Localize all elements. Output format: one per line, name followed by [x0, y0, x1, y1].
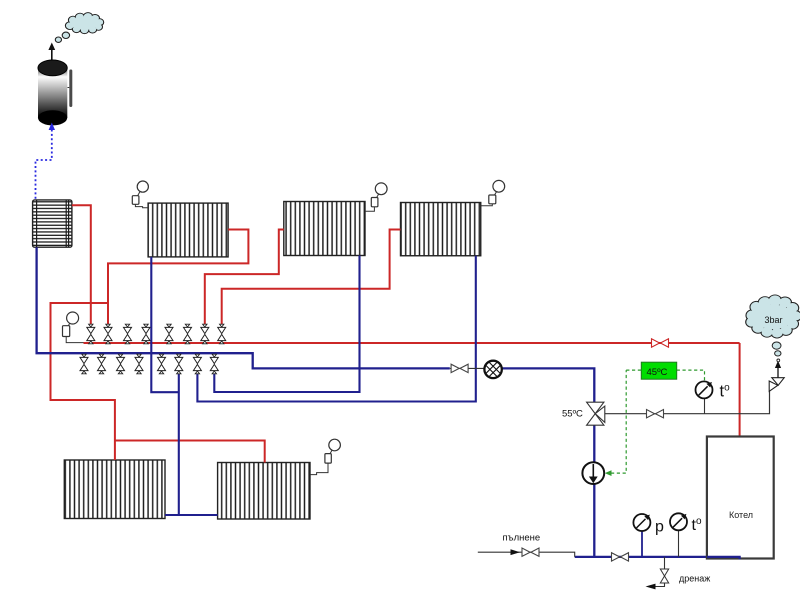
red branch to radiator R6 [115, 441, 265, 463]
smoke puff large [62, 32, 69, 38]
svg-text:пълнене: пълнене [503, 533, 541, 544]
red boiler riser [739, 343, 741, 437]
circulation pump [582, 462, 604, 484]
blue pipe mixing valve to pump [593, 425, 595, 463]
supply manifold valve 5 [165, 324, 173, 344]
svg-text:p: p [655, 519, 664, 536]
radiator R6 [218, 463, 310, 520]
radiator R4 [401, 203, 481, 256]
filling flow arrow [511, 549, 521, 555]
shut-off valve before heat exchanger [451, 364, 468, 372]
thermostatic head R4 [481, 180, 505, 205]
red riser valve V7 to radiator R3 [205, 230, 284, 325]
blue return to mixing valve [502, 368, 595, 402]
green control arrow to pump [605, 470, 612, 476]
blue return R2 drop [151, 257, 179, 392]
smoke cloud [65, 13, 103, 34]
return manifold valve 4 [135, 354, 143, 374]
svg-text:to: to [692, 516, 702, 534]
supply manifold valve 7 [201, 324, 209, 344]
red riser valve V8 to radiator R4 [222, 230, 401, 325]
blue bottom return line into boiler [575, 557, 740, 559]
return manifold valve 6 [175, 354, 183, 374]
svg-text:Котел: Котел [729, 510, 753, 520]
supply manifold valve 2 [104, 324, 112, 344]
supply manifold valve 1 [87, 324, 95, 344]
radiator R3 [284, 202, 365, 256]
boiler flue cylinder [38, 60, 67, 125]
radiator R5 [64, 460, 165, 519]
blow-off puff large [772, 342, 781, 349]
thermostatic head R3 [365, 183, 387, 211]
return manifold valve 3 [117, 354, 125, 374]
smoke puff small [55, 37, 61, 42]
return manifold valve 1 [80, 354, 88, 374]
green control line pump branch to box [626, 369, 641, 371]
green control line to pump [611, 370, 626, 473]
three-way mixing valve 55C [587, 402, 605, 425]
return manifold valve 5 [158, 354, 166, 374]
blue return R4 via valve [197, 256, 475, 402]
blow-off puff mid [775, 351, 781, 356]
blue pipe pump to bottom line [593, 484, 595, 557]
thermostatic head R2 [132, 181, 148, 208]
boiler thermometer [696, 381, 713, 398]
black pipe mixing valve to safety valve [605, 391, 770, 413]
svg-text:45ºC: 45ºC [647, 367, 668, 378]
svg-text:55ºC: 55ºC [562, 409, 583, 420]
lower thermometer [670, 513, 687, 530]
drain stub [664, 557, 666, 569]
drain valve [660, 569, 668, 583]
blue return manifold from R1 [37, 247, 450, 368]
pressure gauge [633, 514, 650, 531]
blue return R3 via valve [214, 256, 359, 393]
cylinder handle [68, 70, 73, 108]
radiator R1 (convector, horizontal fins) [33, 200, 72, 247]
svg-text:to: to [720, 383, 731, 401]
filling line [478, 552, 575, 557]
drain outlet arrow [646, 583, 665, 589]
svg-text:3bar: 3bar [765, 315, 783, 325]
valve on boiler bypass [647, 410, 664, 418]
return manifold valve 8 [210, 354, 218, 374]
supply manifold valve 3 [124, 324, 132, 344]
return manifold valve 7 [193, 354, 201, 374]
bottom line valve [612, 553, 629, 561]
thermostatic head R6 [310, 439, 340, 474]
thermometer stub upper [704, 399, 706, 414]
room thermostat at manifold [63, 312, 84, 343]
blue lower radiators link [165, 514, 218, 516]
blue return inside boiler [707, 557, 740, 559]
green control line box to thermometer [677, 370, 705, 381]
radiator R2 [148, 203, 228, 257]
safety valve blow-off arrow [775, 361, 781, 378]
filling valve [522, 548, 539, 556]
blow-off puff small [777, 359, 780, 362]
boiler Kotel [707, 437, 774, 559]
blue stub pressure gauge [641, 531, 643, 557]
blue drop valve to lower radiators [165, 374, 179, 515]
red riser valve V1 to radiator R1 [72, 205, 91, 324]
supply manifold valve 4 [142, 324, 150, 344]
blue dotted condensate line with arrow [36, 123, 56, 200]
red riser valve V2 to radiator R2 [108, 230, 248, 325]
svg-text:дренаж: дренаж [679, 574, 710, 584]
heat exchanger [483, 359, 504, 380]
controller box 45C [641, 362, 676, 379]
heat exchanger connector pipe [450, 367, 486, 369]
red supply main pipe [84, 342, 740, 344]
flue exhaust arrow [48, 43, 55, 61]
return manifold valve 2 [98, 354, 106, 374]
cloud 3bar [746, 295, 800, 338]
thermometer stub lower [678, 530, 680, 557]
red branch to lower radiators [51, 303, 115, 460]
valve on supply main [652, 339, 669, 347]
safety valve [769, 378, 784, 392]
supply manifold valve 8 [218, 324, 226, 344]
supply manifold valve 6 [184, 324, 192, 344]
